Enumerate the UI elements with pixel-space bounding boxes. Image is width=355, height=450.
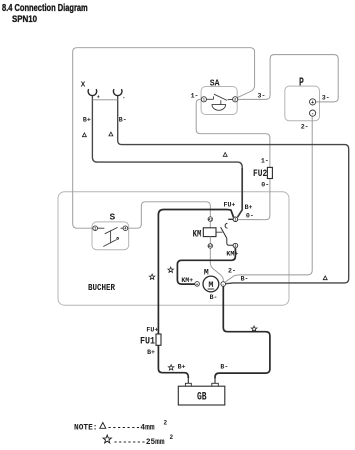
tilt switch S upper bar (105, 227, 118, 233)
wire SA pin1 to FU2 top (net 1-) (196, 99, 270, 167)
contactor KM coil pin A1 (208, 217, 213, 222)
svg-text:P: P (299, 76, 304, 89)
wire B- from connector X to motor minus node (118, 96, 349, 284)
wire A1 to coil (209, 221, 211, 227)
tilt switch S bead (117, 238, 119, 240)
wire SA pin2 to S pin1 (73, 48, 255, 229)
note triangle symbol (100, 423, 106, 429)
fuse FU1 body (156, 334, 161, 345)
svg-text:1: 1 (203, 99, 205, 103)
connector X left clamp (B+) (88, 89, 97, 95)
svg-text:+: + (97, 94, 100, 100)
wire KM+ thick from KM contact pin2 to motor plus (177, 248, 235, 284)
contactor KM coil body (203, 228, 216, 237)
svg-text:A1: A1 (208, 218, 212, 222)
key switch SA pin2 lead (228, 98, 233, 100)
wire coil to A2 (209, 237, 211, 244)
svg-text:FU2: FU2 (253, 169, 267, 180)
svg-text:KM: KM (193, 228, 202, 240)
contactor KM fixed contact arc (225, 223, 227, 228)
svg-text:-: - (311, 110, 314, 117)
svg-text:B-: B- (241, 276, 249, 283)
svg-text:SA: SA (210, 78, 220, 89)
svg-text:FU1: FU1 (140, 337, 155, 348)
motor M body (203, 276, 219, 292)
tilt switch S pin 1 (93, 226, 98, 231)
enclosure box of key switch SA (201, 87, 237, 115)
mark star 25mm2 near FU+ wire (149, 274, 155, 279)
svg-text:1-: 1- (191, 92, 199, 99)
key switch SA key bowl (212, 105, 226, 111)
svg-text:B+: B+ (245, 204, 253, 211)
svg-text:M: M (204, 268, 209, 277)
svg-text:B+: B+ (147, 349, 155, 356)
battery GB plus terminal (185, 383, 191, 386)
tilt switch S lower bar (103, 240, 116, 247)
svg-text:3-: 3- (322, 95, 330, 102)
tilt switch S pin 4 (123, 226, 128, 231)
svg-text:FU+: FU+ (224, 202, 236, 209)
key switch SA pin 1 (201, 97, 206, 102)
wire KM coil A2 to motor minus node (net 2-) (210, 248, 223, 281)
svg-text:2: 2 (164, 420, 168, 427)
wire FU2 bottom to KM contact pin1 (net 0-) (238, 179, 270, 220)
key switch SA pin 2 (233, 97, 238, 102)
enclosure box of tilt switch S (92, 222, 129, 250)
svg-text:B+: B+ (178, 364, 186, 371)
battery GB body (178, 386, 225, 405)
key switch SA fixed contact lead (207, 98, 214, 100)
svg-text:2: 2 (234, 245, 236, 249)
wire SA pin2 to P plus (net 3-) (238, 55, 338, 102)
mark star 25mm2 near FU1 B+ wire (168, 365, 174, 370)
svg-text:2-: 2- (301, 124, 309, 131)
svg-text:-: - (222, 284, 224, 288)
key switch SA fixed contact post (213, 96, 215, 99)
svg-text:B-: B- (210, 294, 218, 301)
svg-text:0-: 0- (246, 213, 254, 220)
tilt switch S pin1 lead (98, 227, 105, 229)
svg-text:M: M (208, 280, 213, 290)
svg-text:KM+: KM+ (181, 277, 193, 284)
svg-text:3-: 3- (258, 92, 266, 99)
contactor KM mechanical link (216, 231, 222, 233)
wire B+ from connector X toward KM contact pin1 (92, 96, 242, 170)
wire FU+ thick from KM contact pin1 through FU1 to GB plus (158, 210, 233, 379)
wire motor minus node to P minus (net 2-) (225, 116, 312, 282)
battery GB minus terminal (212, 383, 219, 386)
contactor KM contact pin 2 (233, 243, 238, 248)
svg-text:-------4mm: -------4mm (107, 423, 154, 433)
motor M symbol underline (208, 288, 215, 290)
svg-text:2: 2 (234, 99, 236, 103)
svg-text:-------25mm: -------25mm (113, 437, 164, 447)
note star symbol (103, 435, 111, 443)
svg-text:2-: 2- (228, 268, 236, 275)
connector X right clamp (B-) (113, 89, 122, 95)
key switch SA lever (214, 94, 227, 100)
mark triangle 4mm2 on X B- wire (109, 132, 113, 136)
mark star 25mm2 near GB B- wire (251, 326, 257, 331)
svg-text:FU+: FU+ (146, 326, 158, 333)
contactor KM contact pin 1 (233, 217, 238, 222)
svg-text:B+: B+ (83, 117, 91, 124)
mark triangle 4mm2 on B- right run (323, 276, 327, 280)
svg-text:KM+: KM+ (226, 251, 238, 258)
svg-text:A2: A2 (208, 245, 212, 249)
tilt switch S center bar (110, 230, 112, 243)
wire stub into GB minus terminal (214, 377, 216, 383)
wire B- thick from motor minus to GB minus (215, 286, 270, 378)
mark triangle 4mm2 on B- horizontal run (223, 153, 227, 157)
svg-text:B-: B- (220, 364, 228, 371)
svg-text:S: S (109, 212, 115, 223)
svg-text:BUCHER: BUCHER (88, 282, 115, 293)
svg-text:GB: GB (197, 392, 207, 404)
svg-text:B-: B- (119, 117, 127, 124)
key switch SA actuator stem (220, 100, 222, 104)
svg-text:1-: 1- (261, 157, 269, 164)
svg-text:2: 2 (170, 434, 174, 441)
wire stub into GB plus terminal (187, 377, 189, 383)
wire B+ drop segment into KM contact pin1 (238, 168, 243, 217)
mark triangle 4mm2 on X B+ wire (82, 133, 86, 137)
contactor KM moving blade (221, 227, 234, 245)
tilt switch S pin4 lead (121, 227, 124, 229)
pump P minus pin (310, 110, 316, 116)
enclosure box BUCHER power unit (58, 192, 289, 305)
enclosure box of pump unit P (285, 86, 320, 121)
svg-text:1: 1 (94, 228, 96, 232)
svg-text:4: 4 (124, 228, 126, 232)
motor M minus pin (node B-) (221, 282, 226, 287)
contactor KM coil pin A2 (208, 244, 213, 249)
svg-text:X: X (81, 81, 86, 89)
mark star 25mm2 near KM+ wire (168, 267, 174, 272)
pump P plus pin (310, 99, 316, 105)
motor M plus pin (195, 282, 200, 287)
contactor KM contact pin1 lead (228, 218, 233, 220)
fuse FU2 body (267, 167, 272, 178)
subtitle SPN10 (12, 14, 37, 25)
svg-text:-: - (122, 95, 125, 101)
title 8.4 Connection Diagram (2, 3, 88, 14)
svg-text:1: 1 (234, 219, 236, 223)
wire jumper between X clamps (92, 99, 117, 101)
svg-text:NOTE:: NOTE: (74, 423, 98, 433)
wire S pin4 to KM coil A1 (128, 202, 211, 228)
svg-text:0-: 0- (261, 181, 269, 188)
